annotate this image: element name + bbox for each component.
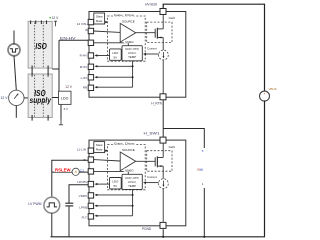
regulator LDO1	[59, 91, 72, 104]
svg-text:M-5V: M-5V	[80, 65, 88, 69]
svg-text:EN-HV: EN-HV	[60, 37, 77, 41]
svg-text:+: +	[264, 92, 266, 96]
junction U2 source/ground	[162, 236, 164, 238]
ISO1 pin ticks top	[30, 20, 32, 24]
svg-text:RB: RB	[83, 86, 87, 90]
signal generator V3 (low side PWM)	[44, 197, 60, 213]
svg-text:LPM5: LPM5	[79, 205, 87, 209]
wire U2 pin2 input	[52, 160, 88, 197]
PS1 pin ticks top	[31, 72, 33, 77]
wire ISO1 out to VDD line	[52, 68, 59, 70]
svg-text:12 V: 12 V	[52, 16, 60, 20]
ISO1 pin ticks bottom	[31, 66, 33, 72]
wire V1 to V2	[14, 56, 16, 91]
svg-text:HV-BUS: HV-BUS	[145, 2, 157, 6]
ammeter A1	[72, 168, 79, 175]
voltage source VBUS	[260, 91, 270, 101]
wire switch node U1 source to U2 drain	[162, 100, 164, 138]
svg-text:PGND: PGND	[142, 227, 152, 231]
svg-text:H_RTN: H_RTN	[151, 102, 162, 106]
svg-text:VBUS: VBUS	[269, 87, 277, 91]
svg-text:RSLEW: RSLEW	[55, 167, 71, 172]
wire V2 to ISO supply	[24, 97, 28, 99]
supply arrow at ISO1 right	[54, 20, 57, 22]
svg-text:ISO: ISO	[35, 42, 47, 51]
svg-text:12 V: 12 V	[1, 96, 9, 100]
svg-text:IN: IN	[85, 28, 88, 32]
op-amp U1 high-side driver IC	[88, 9, 186, 100]
signal generator V1 (high side PWM)	[8, 44, 20, 56]
op-amp U2 low-side driver IC	[88, 137, 186, 228]
wire U2 pin3 row	[52, 171, 88, 173]
svg-text:L1-LIN: L1-LIN	[77, 148, 86, 152]
svg-text:12 VIN+: 12 VIN+	[77, 22, 88, 26]
wire PS1 to LDO1	[52, 97, 58, 99]
wire switch node branch to load	[163, 129, 204, 149]
svg-text:5 V: 5 V	[64, 107, 69, 111]
wire U2 pin4 bypass branch	[69, 185, 88, 203]
wire V3 to ground rail	[51, 213, 53, 237]
svg-text:FLT: FLT	[82, 216, 87, 220]
wire VDD to pin 3 of U1	[59, 39, 88, 41]
wire U2 source pin to ground rail	[162, 229, 164, 237]
svg-text:VDD5: VDD5	[79, 194, 88, 198]
svg-text:12 V: 12 V	[65, 85, 72, 89]
wire: bottom ground rail	[51, 236, 266, 238]
LDO1 output stub and arrow	[60, 104, 62, 119]
label 12V at ISO1 top right	[49, 17, 51, 19]
wire: top rail from U1 drain to HV bus	[163, 4, 264, 91]
wire load to ground rail	[203, 188, 205, 237]
capacitor C1	[65, 202, 73, 204]
resistor RSLEW label (highlighted)	[55, 167, 71, 172]
svg-text:H_SW1: H_SW1	[144, 131, 160, 135]
svg-text:RHI: RHI	[198, 168, 204, 172]
junction load/ground	[203, 236, 205, 238]
svg-text:R-HV: R-HV	[80, 54, 88, 58]
svg-text:LDO: LDO	[61, 97, 69, 101]
svg-text:LDO5V: LDO5V	[77, 180, 88, 184]
svg-text:LV PWM: LV PWM	[28, 202, 41, 206]
svg-text:L-5V: L-5V	[81, 76, 88, 80]
iso supply module PS1	[28, 74, 52, 118]
wire: right rail below VBUS	[264, 101, 266, 237]
svg-text:2.2: 2.2	[80, 168, 85, 172]
dc source V2 (iso supply input)	[9, 90, 24, 105]
wire below V2	[15, 106, 17, 118]
wire VDD vertical	[58, 40, 60, 91]
wire C1 to ground rail	[68, 206, 70, 236]
PS1 pin ticks bottom	[31, 115, 33, 121]
wire above V1	[13, 31, 15, 45]
isolator ISO1	[28, 21, 52, 68]
svg-text:supply: supply	[30, 96, 52, 105]
